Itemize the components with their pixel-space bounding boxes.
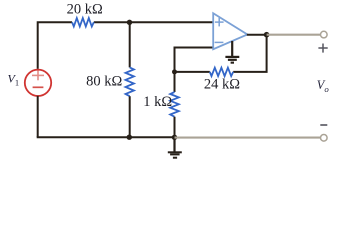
wire bottom rail (black): [37, 136, 175, 138]
node output junction: [264, 32, 270, 38]
wire top rail from source to op-amp + input: [38, 22, 72, 69]
svg-text:1 kΩ: 1 kΩ: [143, 94, 172, 110]
wire inverting input branch: [175, 48, 213, 93]
wire top rail right segment: [94, 21, 213, 23]
ground bottom: [168, 137, 182, 158]
op-amp U1: [213, 13, 247, 49]
ground op-amp: [225, 41, 239, 64]
resistor R2 80 kOhm: [126, 67, 134, 96]
node A top junction: [127, 20, 132, 25]
voltage source V1: [25, 70, 51, 96]
resistor R1 20 kOhm: [72, 18, 94, 26]
node 80k-bottom junction: [127, 135, 132, 140]
terminal bottom output: [321, 135, 328, 142]
svg-text:24 kΩ: 24 kΩ: [204, 76, 240, 92]
svg-text:20 kΩ: 20 kΩ: [67, 1, 103, 17]
wire 1k lower stub: [174, 117, 176, 138]
wire feedback path from output node down and left: [233, 35, 266, 72]
wire output lead (tan): [267, 34, 321, 36]
svg-text:80 kΩ: 80 kΩ: [86, 74, 122, 90]
terminal top output: [321, 31, 328, 38]
wire bottom rail (tan): [175, 137, 321, 139]
node B feedback junction: [172, 69, 177, 74]
label plus output: [318, 44, 327, 53]
wire source bottom to rail: [37, 96, 39, 137]
node bottom-rail junction: [172, 135, 177, 140]
wire 80k branch upper stub: [129, 22, 131, 67]
wire feedback left segment: [175, 71, 210, 73]
resistor R3 1 kOhm: [170, 92, 179, 117]
wire op-amp output: [247, 34, 267, 36]
label minus output: [320, 124, 327, 126]
wire 80k branch lower stub: [129, 96, 131, 137]
resistor R4 24 kOhm: [210, 68, 233, 76]
